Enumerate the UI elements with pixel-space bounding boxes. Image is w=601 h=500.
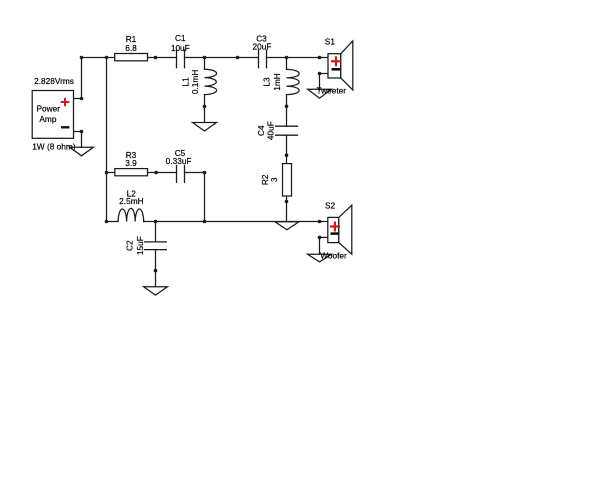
- wire amp plus terminal: [74, 58, 82, 99]
- junction dots: [80, 56, 322, 273]
- svg-text:2.828Vrms: 2.828Vrms: [34, 76, 74, 86]
- svg-text:3: 3: [269, 177, 279, 182]
- wire top rail left segment: [82, 57, 115, 59]
- speaker S2 plus symbol: [330, 222, 340, 232]
- wire R3 row left: [107, 172, 115, 174]
- wire C2 to ground: [155, 250, 157, 287]
- inductor L3: [287, 69, 300, 94]
- ground (R2 bottom rail): [275, 222, 299, 230]
- capacitor C4: [276, 126, 298, 135]
- svg-text:40uF: 40uF: [265, 121, 275, 140]
- wire L1 to ground: [204, 95, 206, 123]
- capacitor C5: [177, 165, 185, 182]
- svg-text:6.8: 6.8: [125, 43, 137, 53]
- svg-text:1mH: 1mH: [272, 73, 282, 91]
- svg-text:20uF: 20uF: [253, 41, 272, 51]
- speaker S1 minus symbol: [332, 68, 341, 71]
- svg-text:15uF: 15uF: [135, 236, 145, 255]
- svg-text:L1: L1: [180, 77, 190, 87]
- svg-text:Woofer: Woofer: [320, 251, 347, 261]
- wire C2 top stub: [155, 222, 157, 242]
- capacitor C1: [177, 50, 185, 68]
- speaker S1 box: [328, 54, 341, 78]
- wire S1 minus to ground: [320, 74, 329, 91]
- inductor L1: [205, 69, 217, 94]
- svg-text:2.5mH: 2.5mH: [119, 196, 143, 206]
- ground (S1 tweeter): [308, 89, 332, 98]
- resistor R2: [283, 164, 292, 196]
- wire bottom rail left to L2: [107, 221, 119, 223]
- wire R1 to C1: [147, 57, 176, 59]
- ground (S2 woofer): [308, 254, 332, 262]
- wire R3 to C5: [147, 172, 176, 174]
- wire vertical feed x106: [106, 58, 108, 222]
- power amp box U1: [32, 91, 73, 139]
- capacitor C2: [145, 242, 167, 250]
- wire C1 to C3: [185, 57, 259, 59]
- wire bottom rail L2 to S2: [144, 221, 328, 223]
- svg-text:Power: Power: [37, 104, 61, 114]
- speaker S2 minus symbol: [331, 232, 340, 235]
- wire L3 top stub: [286, 58, 288, 70]
- inductor L2: [118, 208, 144, 221]
- svg-text:0.33uF: 0.33uF: [166, 156, 192, 166]
- svg-text:Tweeter: Tweeter: [317, 86, 347, 96]
- svg-text:C2: C2: [125, 240, 135, 251]
- speaker S2 box: [328, 217, 339, 242]
- speaker S2 horn: [339, 205, 352, 254]
- wire amp minus terminal: [74, 132, 82, 148]
- wire R2 to bottom rail: [286, 196, 288, 222]
- svg-text:S2: S2: [325, 200, 336, 210]
- ground (power amp): [70, 147, 94, 156]
- resistor R1: [115, 54, 148, 61]
- resistor R3: [115, 169, 148, 176]
- power amp plus symbol: [61, 98, 70, 106]
- capacitor C3: [259, 50, 267, 68]
- wire C5 to corner down to bottom rail: [185, 173, 205, 222]
- wire L1 top stub: [204, 58, 206, 70]
- power amp minus symbol: [61, 126, 69, 128]
- ground (C2): [144, 287, 168, 295]
- wire C4 to R2: [286, 135, 288, 163]
- svg-text:10uF: 10uF: [171, 43, 190, 53]
- wire C3 to S1: [267, 57, 329, 59]
- speaker S1 horn: [341, 41, 353, 90]
- svg-text:3.9: 3.9: [125, 158, 137, 168]
- speaker S1 plus symbol: [331, 56, 341, 66]
- svg-text:1W (8 ohm): 1W (8 ohm): [32, 142, 76, 152]
- ground (L1): [193, 123, 217, 132]
- wire L3 to C4: [286, 95, 288, 127]
- wire S2 minus to ground: [320, 237, 328, 254]
- svg-text:C1: C1: [175, 33, 186, 43]
- svg-text:S1: S1: [325, 36, 336, 46]
- svg-text:Amp: Amp: [39, 114, 56, 124]
- svg-text:0.1mH: 0.1mH: [190, 70, 200, 94]
- svg-text:L3: L3: [262, 77, 272, 87]
